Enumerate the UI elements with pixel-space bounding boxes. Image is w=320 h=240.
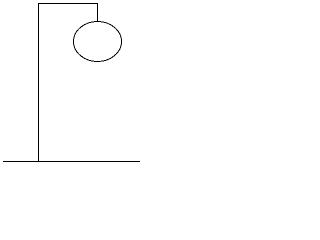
wire: short vertical stub from top wire down to lamp [97, 3, 98, 22]
lamp L1 (circle component) [74, 22, 122, 62]
ground / baseline: bottom horizontal line [3, 161, 140, 162]
wire: top horizontal from left vertical wire to lamp stub [38, 3, 98, 4]
wire: left vertical from top wire down to bottom line [38, 3, 39, 162]
